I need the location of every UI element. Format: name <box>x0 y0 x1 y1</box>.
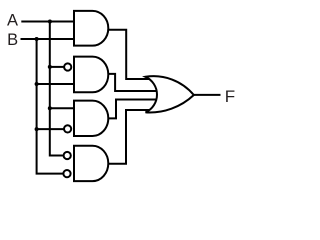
wire U4 output to OR input 4 <box>101 110 154 164</box>
wire input A horizontal <box>21 21 75 23</box>
wire U3 output to OR input 3 <box>101 100 157 119</box>
wire U2 output to OR input 2 <box>101 74 157 91</box>
wire A-branch to U3 top input <box>50 107 76 109</box>
AND gate U3 <box>74 101 108 136</box>
wire B-branch to U2 bottom input <box>37 83 76 85</box>
junction dot A bus at U3 branch <box>48 106 52 110</box>
junction dot A bus at U2 branch <box>48 65 52 69</box>
wire U1 output to OR input 1 <box>101 30 152 79</box>
inverter bubble U2 top input <box>64 63 71 70</box>
wire B-branch to U3 bubble <box>37 128 65 130</box>
OR gate U5 <box>146 76 194 112</box>
wire A-branch to U2 bubble <box>50 66 65 68</box>
wire A vertical bus down to gate4 upper bubble <box>50 21 65 156</box>
svg-text:B: B <box>7 31 18 49</box>
svg-text:F: F <box>225 87 235 106</box>
wire B vertical bus down to gate4 lower bubble <box>37 38 65 174</box>
AND gate U4 <box>74 146 108 181</box>
junction dot A wire <box>48 20 52 24</box>
junction dot B bus at U3 branch <box>35 127 39 131</box>
svg-text:A: A <box>7 12 18 30</box>
AND gate U1 <box>74 11 108 46</box>
junction dot B bus at U2 branch <box>35 82 39 86</box>
inverter bubble U3 bottom input <box>64 125 71 132</box>
AND gate U2 <box>74 57 108 93</box>
wire OR output to F <box>193 94 221 96</box>
inverter bubble U4 bottom input <box>63 170 70 177</box>
inverter bubble U4 top input <box>64 152 71 159</box>
junction dot B wire <box>35 37 39 41</box>
wire input B horizontal <box>21 38 76 40</box>
